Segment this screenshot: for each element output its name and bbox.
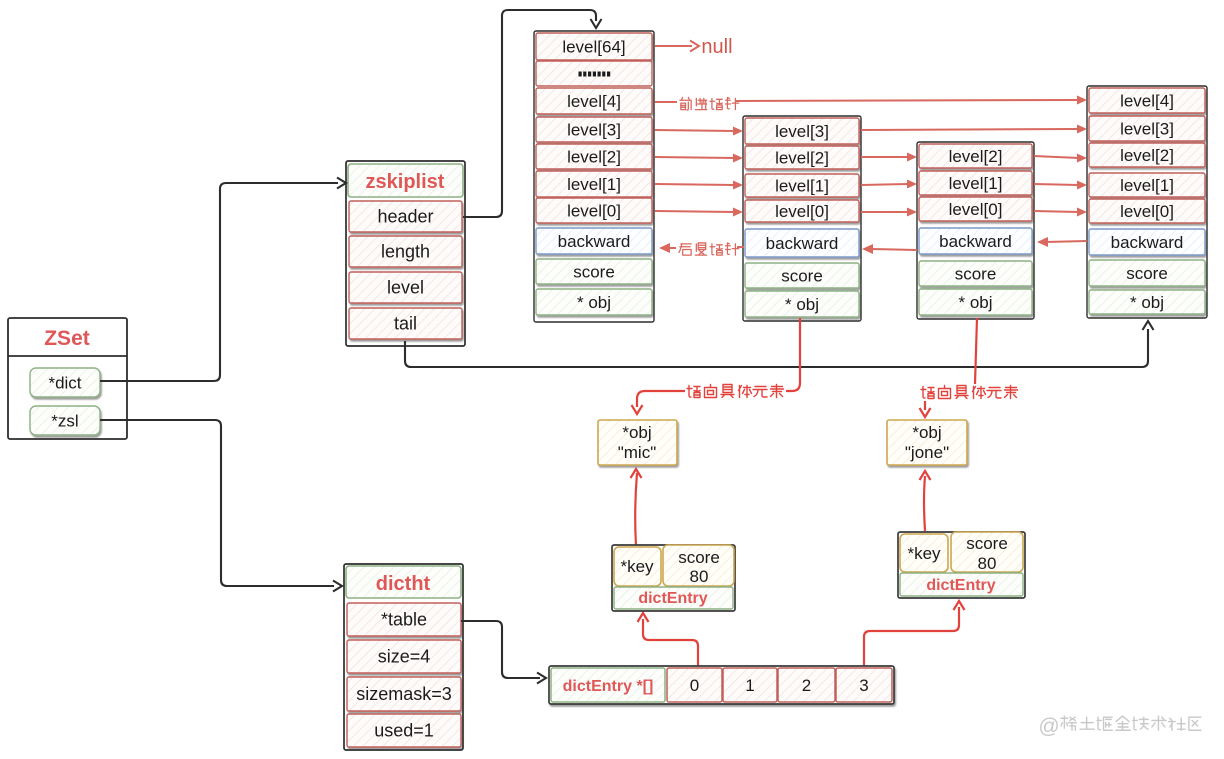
svg-text:3: 3 xyxy=(859,676,868,695)
row node2 level[0] xyxy=(745,200,859,222)
arrow forward level2 node2 to node3 xyxy=(861,153,917,162)
svg-text:level[1]: level[1] xyxy=(1120,176,1174,195)
svg-text:*zsl: *zsl xyxy=(51,412,78,431)
wire *zsl to dictht xyxy=(100,420,342,592)
svg-text:*key: *key xyxy=(907,544,941,563)
svg-text:level[3]: level[3] xyxy=(1120,120,1174,139)
svg-text:level[3]: level[3] xyxy=(567,121,621,140)
title zskiplist xyxy=(348,164,463,197)
row node1 level[3] xyxy=(536,117,652,142)
svg-text:level[0]: level[0] xyxy=(775,202,829,221)
svg-text:score: score xyxy=(966,534,1008,553)
row *table xyxy=(347,603,461,636)
svg-text:@: @ xyxy=(1038,715,1059,738)
arrow forward level1 node1 to node2 xyxy=(655,181,743,190)
arrow forward level2 node1 to node2 xyxy=(655,154,743,163)
row node4 level[4] xyxy=(1089,88,1205,113)
row node3 level[1] xyxy=(919,171,1032,195)
svg-text:2: 2 xyxy=(802,676,811,695)
svg-text:header: header xyxy=(377,207,433,227)
row node1 level[1] xyxy=(536,171,652,197)
row tail xyxy=(349,308,462,339)
svg-text:level[2]: level[2] xyxy=(949,147,1003,166)
row node1 level[2] xyxy=(536,144,652,169)
arrow forward level1 node2 to node3 xyxy=(861,180,917,189)
arrow label2 to obj jone xyxy=(920,401,931,417)
arrow node3 obj down xyxy=(975,318,977,384)
row level xyxy=(349,272,462,303)
svg-text:sizemask=3: sizemask=3 xyxy=(356,684,452,704)
svg-text:null: null xyxy=(701,36,732,58)
title dictht xyxy=(346,566,461,598)
row node3 level[0] xyxy=(919,197,1032,221)
arrow forward level3 node2 to node4 xyxy=(861,125,1087,134)
svg-text:*table: *table xyxy=(381,610,427,630)
svg-text:level[1]: level[1] xyxy=(775,177,829,196)
row sizemask=3 xyxy=(347,677,461,711)
field *dict xyxy=(30,368,100,397)
arrow forward level3 node1 to node2 xyxy=(655,127,743,136)
svg-text:score: score xyxy=(781,267,823,286)
band dictEntry right xyxy=(900,573,1023,596)
row node1 ...... xyxy=(536,61,652,86)
svg-text:score: score xyxy=(573,263,615,282)
arrow key to obj jone xyxy=(920,471,931,531)
svg-text:* obj: * obj xyxy=(1130,293,1164,312)
row node4 backward xyxy=(1089,229,1205,255)
svg-text:*dict: *dict xyxy=(48,374,81,393)
svg-text:ZSet: ZSet xyxy=(44,327,90,350)
arrow forward level0 node3 to node4 xyxy=(1034,208,1087,217)
svg-text:level[3]: level[3] xyxy=(775,122,829,141)
svg-text:level[2]: level[2] xyxy=(567,148,621,167)
svg-text:backward: backward xyxy=(766,234,839,253)
row node2 * obj xyxy=(745,291,859,317)
row node1 level[64] xyxy=(536,33,652,60)
row node2 backward xyxy=(745,229,859,257)
svg-text:1: 1 xyxy=(745,676,754,695)
box obj mic xyxy=(598,420,677,465)
row node3 score xyxy=(919,261,1032,286)
row length xyxy=(349,236,462,267)
svg-text:80: 80 xyxy=(978,554,997,573)
svg-text:score: score xyxy=(678,548,720,567)
arrow array cell3 to dictEntry right xyxy=(864,601,965,667)
row node3 * obj xyxy=(919,289,1032,315)
band dictEntry left xyxy=(614,587,733,609)
field score 80 left xyxy=(663,545,734,586)
svg-text:*obj: *obj xyxy=(912,423,941,442)
svg-text:size=4: size=4 xyxy=(378,647,431,667)
svg-text:level[2]: level[2] xyxy=(775,149,829,168)
row node4 score xyxy=(1089,260,1205,286)
svg-text:level: level xyxy=(387,278,424,298)
row node1 score xyxy=(536,259,652,284)
box dictEntry array container xyxy=(549,666,894,704)
svg-text:* obj: * obj xyxy=(785,295,819,314)
row used=1 xyxy=(347,714,461,747)
row node4 level[0] xyxy=(1089,199,1205,223)
wire tail to node4 xyxy=(405,321,1154,367)
field *zsl xyxy=(30,406,100,435)
watermark juejin community xyxy=(1038,715,1201,738)
svg-text:level[64]: level[64] xyxy=(562,38,625,57)
row header xyxy=(349,201,462,232)
svg-text:used=1: used=1 xyxy=(374,721,434,741)
row node4 level[1] xyxy=(1089,173,1205,197)
arrow level64 to null xyxy=(655,36,733,58)
row node2 level[3] xyxy=(745,118,859,144)
arrow label to obj mic xyxy=(632,391,686,414)
row node3 level[2] xyxy=(919,144,1032,168)
svg-text:0: 0 xyxy=(690,676,699,695)
wire *dict to zskiplist xyxy=(100,178,346,382)
row node1 level[0] xyxy=(536,198,652,223)
svg-text:*key: *key xyxy=(620,557,654,576)
arrow forward level1 node3 to node4 xyxy=(1034,181,1087,190)
svg-text:backward: backward xyxy=(558,232,631,251)
field *key left xyxy=(614,547,661,586)
row node2 score xyxy=(745,263,859,288)
cell index 1 xyxy=(723,668,777,702)
svg-text:backward: backward xyxy=(1111,233,1184,252)
svg-text:score: score xyxy=(955,265,997,284)
row node1 backward xyxy=(536,228,652,254)
label points-to-element 2 xyxy=(921,386,1018,399)
box dictEntry left container xyxy=(612,545,735,611)
svg-text:level[4]: level[4] xyxy=(567,92,621,111)
svg-text:80: 80 xyxy=(690,567,709,586)
wire header to node1 xyxy=(463,10,602,217)
arrow node2 obj down to label xyxy=(786,318,800,391)
svg-text:backward: backward xyxy=(939,232,1012,251)
cell dictEntry-array label xyxy=(551,668,665,702)
row node2 level[1] xyxy=(745,174,859,197)
row node4 * obj xyxy=(1089,290,1205,314)
row size=4 xyxy=(347,640,461,673)
svg-text:dictEntry: dictEntry xyxy=(926,577,995,594)
svg-text:level[4]: level[4] xyxy=(1120,92,1174,111)
svg-text:zskiplist: zskiplist xyxy=(366,171,445,193)
svg-text:* obj: * obj xyxy=(577,293,611,312)
svg-text:dictEntry *[]: dictEntry *[] xyxy=(563,678,654,695)
svg-text:level[0]: level[0] xyxy=(1120,202,1174,221)
box ZSet xyxy=(8,318,127,439)
box node1 container xyxy=(534,31,654,322)
cell index 2 xyxy=(778,668,835,702)
row node1 level[4] xyxy=(536,88,652,114)
field *key right xyxy=(900,534,948,572)
svg-text:tail: tail xyxy=(394,314,417,334)
cell index 3 xyxy=(836,668,892,702)
svg-text:level[0]: level[0] xyxy=(567,202,621,221)
svg-text:*obj: *obj xyxy=(622,423,651,442)
row node3 backward xyxy=(919,228,1032,254)
svg-text:* obj: * obj xyxy=(958,293,992,312)
svg-text:dictht: dictht xyxy=(376,573,431,595)
row node1 * obj xyxy=(536,289,652,315)
row node4 level[3] xyxy=(1089,116,1205,141)
arrow forward level2 node3 to node4 xyxy=(1034,154,1087,163)
arrow forward level0 node1 to node2 xyxy=(655,208,743,217)
wire *table to dictEntry array xyxy=(461,621,546,684)
box zskiplist container xyxy=(346,161,465,346)
svg-text:level[1]: level[1] xyxy=(949,174,1003,193)
svg-text:"mic": "mic" xyxy=(618,443,657,462)
arrow backward node4 to node3 xyxy=(1037,237,1087,247)
arrow forward level0 node2 to node3 xyxy=(861,208,917,217)
box node4 container xyxy=(1087,86,1207,318)
box dictEntry right container xyxy=(898,532,1025,598)
svg-text:level[0]: level[0] xyxy=(949,200,1003,219)
arrow key to obj mic xyxy=(631,469,642,546)
box dictht container xyxy=(344,564,463,750)
box obj jone xyxy=(887,420,967,465)
svg-text:length: length xyxy=(381,242,430,262)
box node2 container xyxy=(743,116,861,321)
arrow backward node3 to node2 xyxy=(862,244,917,254)
arrow backward node2 to node1 with label xyxy=(659,243,744,255)
arrow forward pointer level4 node1 to node4 with label xyxy=(655,96,1087,111)
box node3 container xyxy=(917,142,1034,319)
cell index 0 xyxy=(667,668,722,702)
svg-text:level[1]: level[1] xyxy=(567,175,621,194)
svg-text:dictEntry: dictEntry xyxy=(638,590,707,607)
row node4 level[2] xyxy=(1089,143,1205,167)
svg-text:score: score xyxy=(1126,264,1168,283)
arrow array cell0 to dictEntry left xyxy=(638,613,699,667)
svg-text:level[2]: level[2] xyxy=(1120,146,1174,165)
field score 80 right xyxy=(951,532,1023,573)
label points-to-element 1 xyxy=(687,385,784,398)
svg-text:"jone": "jone" xyxy=(905,443,949,462)
row node2 level[2] xyxy=(745,146,859,169)
